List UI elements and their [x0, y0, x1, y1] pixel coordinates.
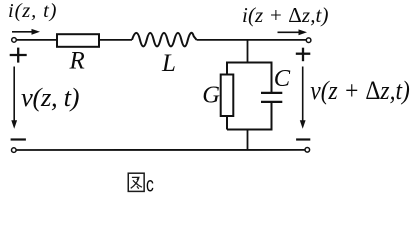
voltage arrow left: [11, 67, 17, 129]
voltage arrow right: [300, 67, 306, 129]
bottom wire: [16, 149, 305, 151]
resistor R1 body: [57, 34, 99, 47]
svg-text:i(z, t): i(z, t): [8, 0, 57, 22]
inductor L coil: [132, 33, 197, 47]
wire: [16, 39, 57, 41]
svg-text:R: R: [69, 48, 85, 75]
wire: [99, 39, 132, 41]
minus sign left: [11, 138, 26, 140]
terminal top-right: [306, 38, 311, 43]
current arrow left: [12, 29, 40, 35]
terminal bottom-left: [12, 148, 17, 153]
C branch bottom wire: [271, 103, 273, 131]
G branch top wire: [226, 62, 228, 75]
conductance G body: [221, 75, 234, 117]
shunt top rail: [227, 62, 272, 64]
plus sign left: [10, 48, 27, 63]
wire: [197, 39, 307, 41]
C branch top wire: [271, 62, 273, 93]
shunt bottom rail: [227, 129, 272, 131]
svg-text:G: G: [202, 82, 220, 109]
terminal top-left: [12, 38, 17, 43]
terminal bottom-right: [305, 148, 310, 153]
G branch bottom wire: [226, 116, 228, 130]
shunt return wire: [247, 130, 249, 151]
minus sign right: [296, 138, 310, 140]
svg-text:L: L: [161, 50, 176, 77]
svg-text:c: c: [146, 174, 154, 197]
svg-text:v(z + Δz,t): v(z + Δz,t): [310, 75, 410, 105]
plus sign right: [296, 48, 311, 62]
svg-text:v(z, t): v(z, t): [21, 82, 80, 112]
caption glyph tu (CJK): [128, 173, 144, 191]
current arrow right: [278, 29, 308, 35]
shunt branch drop wire: [247, 40, 249, 63]
svg-text:C: C: [274, 65, 291, 92]
capacitor C plates: [261, 92, 282, 94]
svg-text:i(z + Δz,t): i(z + Δz,t): [242, 3, 329, 27]
